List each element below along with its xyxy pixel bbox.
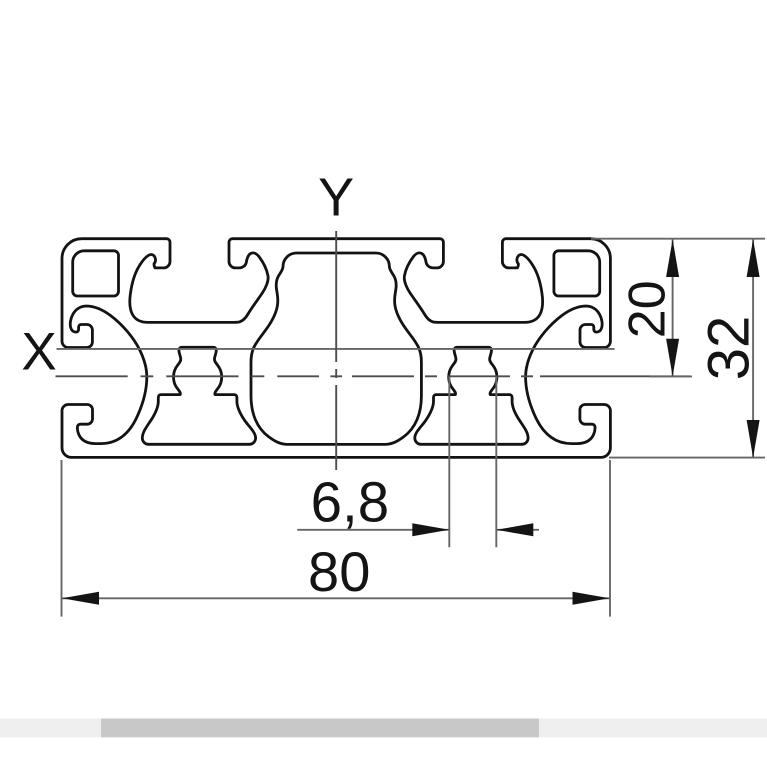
scrollbar track [0, 719, 767, 738]
dim 20: dimension line [672, 239, 674, 376]
dim 6,8: arrow left [496, 523, 533, 536]
horizontal dash-dot center line [56, 375, 691, 377]
dim 32: extension bottom [609, 457, 765, 459]
svg-text:Y: Y [318, 168, 354, 228]
dim 20: extension top (shared with 32) [591, 238, 765, 240]
dim 80: arrow left [62, 592, 99, 605]
dim 80: dimension line [62, 597, 611, 599]
vertical center line (Y axis) [335, 231, 337, 470]
dim 32: arrow up [747, 239, 760, 277]
scrollbar thumb [101, 719, 539, 738]
dim 80: arrow right [573, 592, 610, 605]
X axis line [57, 348, 615, 350]
dim 6,8: arrow right [412, 523, 449, 536]
dim 20: extension bottom [650, 375, 692, 377]
dim 32: arrow down [747, 420, 760, 458]
profile left half [62, 239, 336, 458]
screw channel bell right [415, 347, 528, 444]
svg-text:X: X [21, 322, 56, 381]
screw channel bell left [142, 347, 255, 444]
dim 32: dimension line [752, 239, 754, 458]
dim 20: arrow up [666, 239, 679, 277]
svg-text:6,8: 6,8 [311, 470, 390, 533]
dim 80: extension lines [61, 460, 63, 617]
profile right half (mirrored) [336, 239, 610, 458]
dim 6,8: extension lines [448, 377, 450, 547]
svg-text:80: 80 [308, 540, 370, 603]
dim 20: arrow down [666, 339, 679, 377]
dim 6,8: dimension line left + right [297, 529, 449, 531]
svg-text:32: 32 [696, 316, 761, 381]
svg-text:20: 20 [618, 280, 676, 338]
